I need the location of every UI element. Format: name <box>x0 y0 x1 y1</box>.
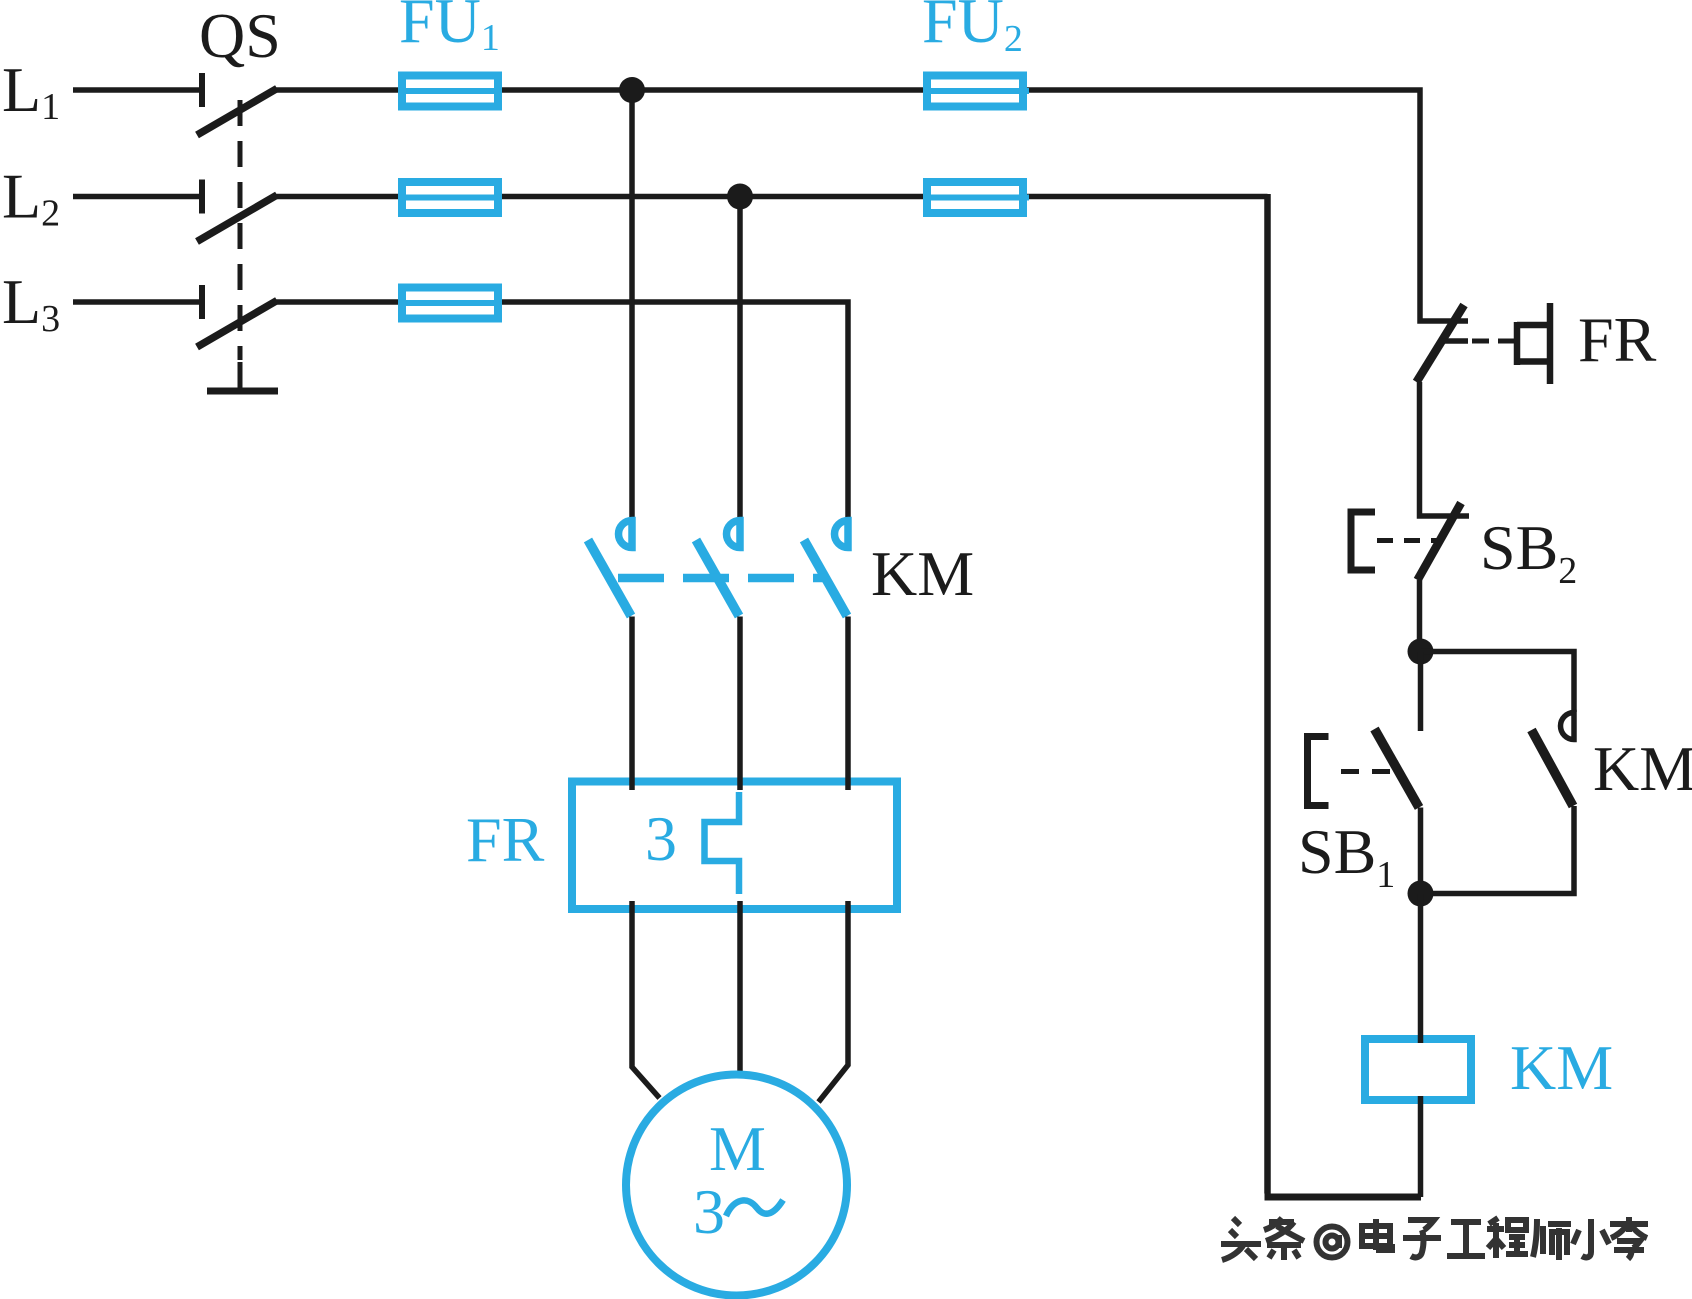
svg-text:FU2: FU2 <box>922 0 1023 60</box>
svg-text:KM: KM <box>1593 733 1692 804</box>
svg-text:FR: FR <box>1578 304 1657 375</box>
svg-text:L2: L2 <box>2 161 60 235</box>
svg-text:SB1: SB1 <box>1298 816 1395 896</box>
svg-text:KM: KM <box>871 538 974 609</box>
svg-text:3: 3 <box>645 803 677 874</box>
svg-text:QS: QS <box>199 0 281 71</box>
svg-text:FR: FR <box>466 804 545 875</box>
svg-text:3: 3 <box>693 1176 725 1247</box>
svg-text:SB2: SB2 <box>1480 512 1577 592</box>
svg-text:M: M <box>709 1113 766 1184</box>
svg-text:KM: KM <box>1510 1032 1613 1103</box>
svg-text:FU1: FU1 <box>399 0 500 59</box>
svg-text:L1: L1 <box>2 54 60 128</box>
svg-text:L3: L3 <box>2 266 60 340</box>
